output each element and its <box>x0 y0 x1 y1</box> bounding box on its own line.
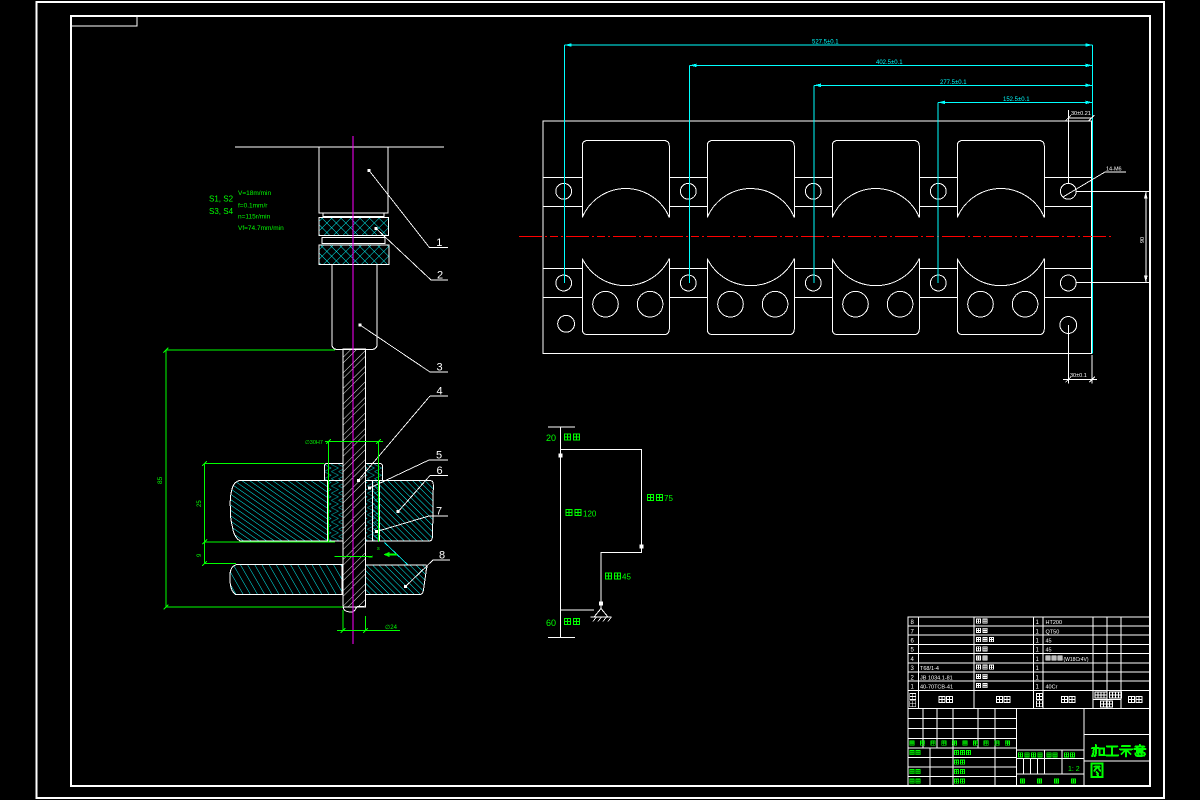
drill shank hatched (item 4) <box>343 349 366 607</box>
cylinder bay 3 lower saddle <box>832 259 919 335</box>
label qianbei <box>565 434 571 440</box>
corner hole bottom-left <box>558 315 575 332</box>
callout 6 (workpiece) <box>397 465 448 513</box>
dimension 527 (cyan, hole1 to right face) <box>565 40 1093 47</box>
label shending <box>954 770 958 774</box>
svg-text:7: 7 <box>436 506 442 518</box>
cylinder bay 1 upper saddle <box>582 141 669 218</box>
title cell divider <box>1084 760 1150 762</box>
green feed arrow <box>384 552 398 557</box>
cylinder bay 4 upper saddle <box>957 141 1044 218</box>
drawing title line1: jia gong shi yi <box>1092 745 1145 757</box>
green drill diameter dim <box>342 610 344 631</box>
svg-text:1: 2: 1: 2 <box>1068 766 1080 773</box>
svg-text:5: 5 <box>436 450 442 462</box>
svg-text:V=18m/min: V=18m/min <box>238 190 271 197</box>
svg-text:∅30H7: ∅30H7 <box>305 439 323 446</box>
callout 7 (bushing wall) <box>375 506 448 534</box>
svg-text:8: 8 <box>439 550 445 562</box>
label kuaitui 120 <box>566 510 572 516</box>
svg-text:s: s <box>377 546 380 552</box>
callout 2 (nut) <box>375 227 449 282</box>
green line under blocks <box>335 555 373 557</box>
knurled nut band 1 (item 2) <box>319 218 389 236</box>
cylinder bay 1 lower saddle <box>582 259 669 335</box>
right section divider <box>1084 734 1150 736</box>
svg-text:45: 45 <box>1046 648 1052 654</box>
svg-text:90: 90 <box>1140 237 1146 243</box>
svg-text:S1, S2: S1, S2 <box>209 195 234 204</box>
callout 5 (bushing) <box>368 450 448 490</box>
svg-text:30±0.1: 30±0.1 <box>1070 373 1087 379</box>
label sheji <box>910 751 914 755</box>
label zhongliang <box>1047 753 1051 757</box>
drawing title line2: tu <box>1092 763 1103 777</box>
lower web holes <box>556 275 572 291</box>
bay 3 bolt bores <box>843 291 869 317</box>
cylinder bay 2 lower saddle <box>707 259 794 335</box>
header cailiao <box>1062 697 1068 703</box>
dimension 402 (cyan) <box>690 60 1093 67</box>
svg-text:JB 1034.1-81: JB 1034.1-81 <box>920 675 953 681</box>
svg-text:(W18Cr4V): (W18Cr4V) <box>1064 657 1089 663</box>
frame corner tab <box>71 16 137 26</box>
svg-text:4: 4 <box>437 386 443 398</box>
header zhongliang <box>1101 701 1107 707</box>
dimension 277 (cyan) <box>814 80 1092 87</box>
svg-text:f=0.1mm/r: f=0.1mm/r <box>238 203 268 210</box>
corner hole bottom-right <box>1060 317 1077 334</box>
svg-text:n=115r/min: n=115r/min <box>238 214 271 221</box>
label bili <box>1064 753 1068 757</box>
left grid horizontal lines <box>908 718 1017 720</box>
revision header row <box>910 741 914 745</box>
bay 4 bolt bores <box>968 291 994 317</box>
title block outline <box>908 709 1150 787</box>
spacer ring <box>322 238 385 244</box>
spindle neck step <box>323 213 384 217</box>
svg-text:120: 120 <box>583 510 597 519</box>
knurled nut band 2 <box>319 245 389 265</box>
parts list header <box>910 692 1142 707</box>
header xuhao <box>910 694 916 700</box>
break line chamfer (cyan) <box>385 543 409 566</box>
svg-text:QT50: QT50 <box>1046 629 1060 635</box>
green bushing bore dim <box>327 442 329 542</box>
label gongjin 45 <box>606 573 612 579</box>
callout 8 (lower workpiece) <box>404 550 450 589</box>
header shuliang <box>1036 694 1042 700</box>
cycle bottom tick <box>548 637 575 639</box>
svg-text:85: 85 <box>157 476 164 484</box>
label pizhun <box>954 779 958 783</box>
header beizhu <box>1129 697 1135 703</box>
svg-text:45: 45 <box>622 573 631 582</box>
green wall dims <box>204 463 206 563</box>
fixture wall upper-left block (item 6 area) <box>230 481 327 541</box>
svg-text:6: 6 <box>437 465 443 477</box>
svg-text:402.5±0.1: 402.5±0.1 <box>876 60 903 66</box>
jig bushing flange right <box>366 463 383 480</box>
cylinder bay 3 upper saddle <box>832 141 919 218</box>
drill tip <box>343 606 366 612</box>
crankshaft centerline (red) <box>519 236 1112 238</box>
bushing body right wall <box>366 481 380 542</box>
svg-text:277.5±0.1: 277.5±0.1 <box>940 80 967 86</box>
cycle axis vertical <box>560 427 562 638</box>
dimension 90 right side (white) <box>1077 192 1150 283</box>
svg-text:40-70TCB-41: 40-70TCB-41 <box>920 685 953 691</box>
header danjian zongji <box>1095 692 1101 698</box>
bay 1 bolt bores <box>593 291 619 317</box>
svg-text:20: 20 <box>546 433 556 443</box>
parts list table grid <box>908 617 1150 709</box>
svg-text:14-M6: 14-M6 <box>1106 167 1122 173</box>
svg-text:60: 60 <box>546 618 556 628</box>
dimension 152 (cyan) <box>938 97 1092 104</box>
header mingcheng <box>997 697 1003 703</box>
svg-text:75: 75 <box>664 494 673 503</box>
header daihao <box>939 697 945 703</box>
svg-text:152.5±0.1: 152.5±0.1 <box>1003 97 1030 103</box>
lower web band lines <box>543 269 583 298</box>
svg-text:527.5±0.1: 527.5±0.1 <box>812 40 839 46</box>
left grid verticals top <box>922 709 924 749</box>
green overall height dim <box>165 350 167 607</box>
svg-text:45: 45 <box>1046 639 1052 645</box>
callout 4 (drill) <box>357 386 448 482</box>
label jieduan biaoji <box>1018 753 1022 757</box>
svg-text:3: 3 <box>437 362 443 374</box>
callout 3 (sleeve) <box>359 324 449 374</box>
label gongyi <box>910 779 914 783</box>
svg-text:S3, S4: S3, S4 <box>209 207 234 216</box>
bay 2 bolt bores <box>718 291 744 317</box>
drill centerline (magenta) <box>352 136 354 644</box>
upper web band lines <box>543 178 583 207</box>
machine face line <box>235 146 444 148</box>
cyan extension lines into block <box>565 45 1093 354</box>
dimension 30 top-right (white) <box>1066 110 1095 183</box>
label shenhe <box>910 770 914 774</box>
spindle body (item 1) <box>319 147 388 213</box>
callout 1 (spindle) <box>368 169 449 249</box>
label houbei <box>565 619 571 625</box>
svg-text:40Cr: 40Cr <box>1046 685 1058 691</box>
parts list rows text <box>911 619 1089 690</box>
bushing body left wall <box>328 481 343 542</box>
middle section lines <box>1017 749 1084 751</box>
svg-text:25: 25 <box>197 500 203 507</box>
engine block outline <box>543 121 1092 354</box>
label gong zhang di zhang <box>1020 779 1024 783</box>
label kuaijin 75 <box>648 495 654 501</box>
svg-text:Vf=74.7mm/min: Vf=74.7mm/min <box>238 225 284 232</box>
svg-text:2: 2 <box>437 270 443 282</box>
svg-text:∅24: ∅24 <box>385 624 398 631</box>
svg-text:T68/1-4: T68/1-4 <box>920 666 939 672</box>
label row2 mid <box>954 760 958 764</box>
workpiece lower-right block (item 8) <box>366 565 427 595</box>
fixture lower-left block <box>230 565 342 595</box>
svg-text:HT200: HT200 <box>1046 620 1063 626</box>
dead-stop symbol <box>591 609 612 622</box>
workpiece upper-right block (item 6) <box>372 481 433 541</box>
svg-text:1: 1 <box>436 237 442 249</box>
drill sleeve cylinder (item 3) <box>332 265 377 350</box>
thread callout 14-M6 <box>1063 167 1126 198</box>
cylinder bay 2 upper saddle <box>707 141 794 218</box>
cycle return line <box>561 609 595 611</box>
svg-text:30±0.21: 30±0.21 <box>1071 111 1091 117</box>
cycle top tick <box>548 426 575 428</box>
upper web holes <box>556 183 572 199</box>
left grid verticals bottom <box>929 748 931 786</box>
cycle node markers <box>559 454 644 606</box>
dimension 30 bottom-right (white) <box>1063 325 1097 384</box>
cylinder bay 4 lower saddle <box>957 259 1044 335</box>
cycle rapid-advance path <box>561 450 642 609</box>
label biaozhunhua <box>954 751 958 755</box>
jig bushing flange left (item 5) <box>324 463 343 480</box>
